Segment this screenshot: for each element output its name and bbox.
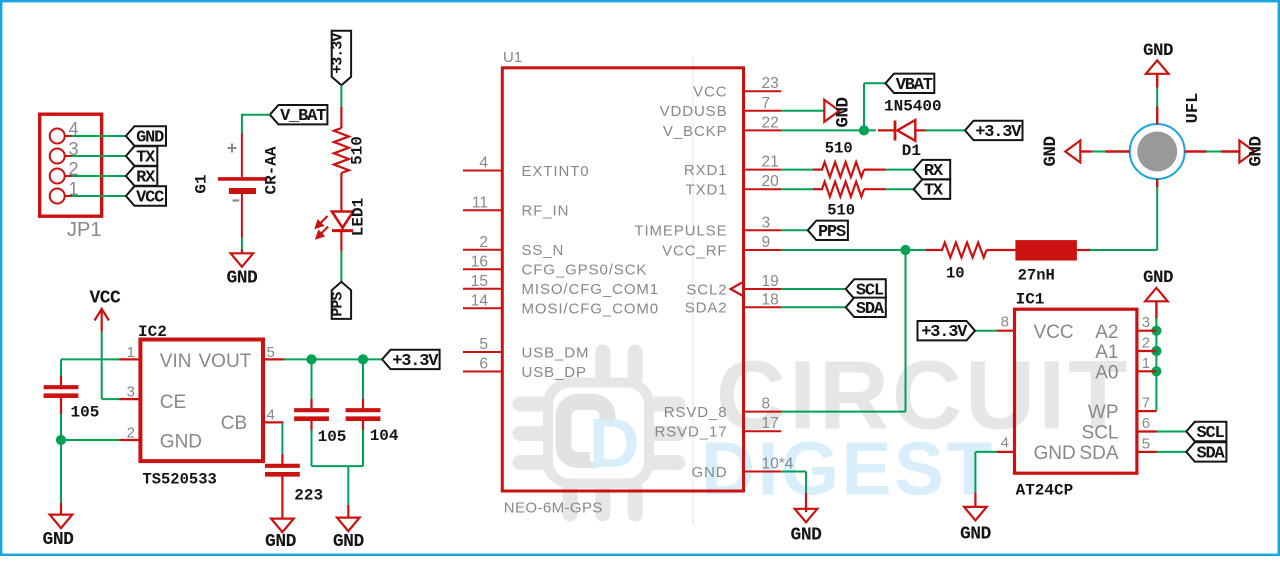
- svg-text:D1: D1: [902, 142, 921, 160]
- ground symbol (battery): [241, 250, 243, 254]
- ground symbol (cap 223): [271, 519, 294, 533]
- resistor 510 (LED): [334, 128, 349, 173]
- wire TIMEPULSE to PPS: [781, 229, 808, 231]
- net flag SDA (U1): [846, 298, 886, 317]
- svg-text:MOSI/CFG_COM0: MOSI/CFG_COM0: [522, 301, 660, 318]
- IC1 pin 8 stub: [997, 330, 1015, 332]
- junction dot (A2): [1151, 326, 1161, 336]
- svg-text:TXD1: TXD1: [686, 182, 728, 199]
- svg-text:SS_N: SS_N: [522, 242, 565, 259]
- svg-text:CFG_GPS0/SCK: CFG_GPS0/SCK: [522, 262, 648, 279]
- svg-text:+3.3V: +3.3V: [921, 323, 968, 342]
- svg-text:22: 22: [762, 114, 779, 131]
- svg-text:RSVD_17: RSVD_17: [654, 424, 727, 441]
- capacitor 223 to ground lead: [281, 475, 283, 518]
- net flag VCC (JP1): [126, 186, 166, 205]
- capacitor C-in 105 leads: [60, 359, 62, 377]
- svg-text:104: 104: [370, 427, 399, 445]
- power symbol VCC arrow: [95, 309, 109, 332]
- svg-text:GND: GND: [1143, 268, 1173, 288]
- U1 pin 16 (CFG_GPS0/SCK) stub: [463, 268, 502, 270]
- UFL top pin stub: [1156, 106, 1158, 124]
- UFL left pin stub: [1105, 150, 1130, 152]
- U1 pin 4 (EXTINT0) stub: [463, 170, 502, 172]
- U1 pin 9 (VCC_RF) stub: [744, 249, 782, 251]
- svg-text:SDA: SDA: [1079, 443, 1118, 464]
- wire VIN row: [61, 358, 120, 360]
- wire V_BCKP: [781, 129, 876, 131]
- UFL connector: [1130, 124, 1185, 179]
- svg-text:105: 105: [71, 404, 100, 422]
- ground symbol (IC1): [964, 507, 987, 521]
- svg-text:DIGEST: DIGEST: [701, 427, 995, 511]
- svg-text:6: 6: [1142, 415, 1150, 432]
- battery G1 negative lead: [241, 194, 243, 238]
- svg-text:VCC_RF: VCC_RF: [662, 242, 727, 259]
- U1 pin 14 (MOSI/CFG_COM0) stub: [463, 307, 502, 309]
- capacitor C-out 104: [346, 408, 381, 412]
- ground symbol (IC2 input): [50, 515, 73, 529]
- wire CB to cap 223: [281, 422, 283, 455]
- net flag +3.3V (IC1): [918, 321, 976, 340]
- ground symbol (IC1 top): [1145, 288, 1168, 302]
- svg-text:TX: TX: [136, 149, 156, 168]
- svg-text:4: 4: [479, 155, 488, 172]
- svg-text:GND: GND: [43, 530, 75, 550]
- net flag SCL (U1): [846, 279, 886, 298]
- ground symbol (UFL left): [1065, 141, 1080, 163]
- svg-text:510: 510: [349, 136, 367, 165]
- wire U1 GND net: [781, 471, 806, 473]
- svg-text:VCC: VCC: [1034, 322, 1074, 343]
- svg-text:EXTINT0: EXTINT0: [522, 163, 590, 180]
- svg-text:IC2: IC2: [138, 323, 167, 341]
- U1 pin 2 (SS_N) stub: [463, 249, 502, 251]
- ground symbol (U1): [795, 509, 818, 523]
- svg-text:CE: CE: [160, 392, 186, 413]
- capacitor C-out 105: [294, 408, 329, 412]
- junction dot (cap 105 out): [306, 354, 316, 364]
- JP1 pin 3 stub: [65, 155, 73, 157]
- svg-text:SDA2: SDA2: [685, 300, 728, 317]
- JP1 pin 4 stub: [65, 135, 73, 137]
- resistor 510 (LED) lead: [340, 107, 342, 128]
- U1 pin 3 (TIMEPULSE) stub: [744, 229, 782, 231]
- net flag GND (JP1): [126, 126, 166, 145]
- svg-text:8: 8: [762, 396, 771, 413]
- svg-text:6: 6: [479, 356, 488, 373]
- svg-text:AT24CP: AT24CP: [1016, 482, 1074, 500]
- wire resistor to TX flag: [885, 188, 914, 190]
- svg-text:5: 5: [1142, 435, 1150, 452]
- svg-text:15: 15: [471, 273, 488, 290]
- IC2 pin 2 stub: [119, 439, 140, 441]
- svg-text:VIN: VIN: [160, 351, 192, 372]
- resistor 510 (TXD1): [813, 188, 823, 190]
- svg-text:MISO/CFG_COM1: MISO/CFG_COM1: [522, 281, 660, 298]
- wire VCC_RF junction down to RSVD_8: [905, 250, 907, 412]
- ground lead (UFL left): [1081, 150, 1091, 152]
- ground lead (IC1 top): [1155, 301, 1157, 319]
- junction dot (cap 104 out): [358, 354, 368, 364]
- IC2 pin 1 stub: [119, 358, 140, 360]
- svg-text:V_BCKP: V_BCKP: [663, 123, 728, 140]
- diode D1: [878, 129, 896, 131]
- svg-text:A0: A0: [1095, 362, 1118, 383]
- IC1 body: [1015, 309, 1137, 473]
- svg-text:SCL: SCL: [1082, 423, 1119, 444]
- svg-text:VDDUSB: VDDUSB: [660, 103, 728, 120]
- svg-text:CB: CB: [221, 413, 247, 434]
- svg-text:PPS: PPS: [329, 292, 346, 317]
- resistor to LED lead: [340, 173, 342, 212]
- svg-text:GND: GND: [136, 129, 164, 148]
- svg-text:GND: GND: [265, 532, 297, 552]
- ground symbol (output caps): [337, 518, 360, 532]
- wire VDDUSB to GND: [781, 110, 825, 112]
- wire down to ground (left): [60, 440, 62, 504]
- svg-text:SCL: SCL: [1197, 424, 1225, 443]
- U1 pin 11 (RF_IN) stub: [463, 209, 502, 211]
- svg-text:UFL: UFL: [1184, 93, 1203, 124]
- net flag V_BAT: [270, 105, 328, 124]
- wire LED to PPS: [340, 251, 342, 282]
- junction dot (V_BCKP): [859, 125, 869, 135]
- U1 pin 19 (SCL2) stub: [744, 288, 782, 290]
- svg-text:GND: GND: [1034, 443, 1076, 464]
- svg-text:A1: A1: [1095, 342, 1118, 363]
- wire UFL right: [1206, 151, 1222, 153]
- UFL right pin stub: [1185, 150, 1208, 152]
- svg-text:11: 11: [472, 194, 488, 211]
- svg-text:TS520533: TS520533: [142, 471, 216, 489]
- wire GND row IC2: [61, 439, 120, 441]
- capacitor C-out 105 leads: [311, 359, 313, 400]
- JP1 pin 4 circle: [50, 129, 65, 144]
- svg-text:GND: GND: [691, 464, 727, 481]
- wire JP1 pin 1: [72, 195, 128, 197]
- IC1 right pin stubs: [1138, 330, 1157, 332]
- svg-text:RSVD_8: RSVD_8: [664, 404, 728, 421]
- net flag TX: [914, 180, 951, 199]
- svg-text:2: 2: [127, 425, 135, 442]
- svg-text:3: 3: [1142, 314, 1150, 331]
- svg-text:A2: A2: [1095, 322, 1118, 343]
- capacitor C-out 104 leads: [362, 359, 364, 400]
- inductor to UFL lead: [1077, 249, 1091, 251]
- svg-text:GND: GND: [226, 269, 258, 289]
- svg-text:7: 7: [762, 95, 771, 112]
- svg-text:SDA: SDA: [856, 300, 885, 319]
- svg-text:10*4: 10*4: [762, 456, 794, 473]
- svg-text:223: 223: [294, 487, 323, 505]
- svg-text:21: 21: [762, 154, 779, 171]
- junction dot (C-in/GND row): [56, 435, 66, 445]
- junction dot (A1): [1151, 346, 1161, 356]
- U1 pin 20 (TXD1) stub: [744, 188, 782, 190]
- U1 pin 21 (RXD1) stub: [744, 169, 782, 171]
- svg-text:27nH: 27nH: [1018, 267, 1055, 285]
- U1 body: [502, 68, 743, 491]
- svg-text:510: 510: [825, 140, 853, 158]
- IC2 pin 3 stub: [119, 398, 140, 400]
- U1 pin 8 (RSVD_8) stub: [744, 411, 782, 413]
- U1 pin 5 (USB_DM) stub: [463, 351, 502, 353]
- ground lead (UFL right): [1221, 150, 1239, 152]
- wire JP1 pin 2: [72, 175, 128, 177]
- ground lead (UFL top): [1156, 74, 1158, 88]
- svg-text:GND: GND: [834, 97, 854, 127]
- svg-text:USB_DM: USB_DM: [522, 344, 590, 361]
- svg-text:G1: G1: [193, 174, 211, 193]
- svg-text:4: 4: [1001, 435, 1009, 452]
- JP1 pin 2 circle: [50, 169, 65, 184]
- U1 pin 23 (VCC) stub: [744, 90, 782, 92]
- svg-text:GND: GND: [1143, 41, 1173, 61]
- U1 pin 22 (V_BCKP) stub: [744, 129, 782, 131]
- power flag +3.3V (top): [332, 31, 351, 86]
- svg-text:TX: TX: [924, 182, 944, 201]
- watermark chip logo: [520, 352, 678, 514]
- battery G1 plates: [218, 177, 267, 181]
- svg-text:GND: GND: [1041, 136, 1061, 166]
- svg-text:23: 23: [762, 75, 779, 92]
- net flag RX (JP1): [126, 166, 157, 185]
- resistor to inductor lead: [987, 249, 1017, 251]
- svg-text:105: 105: [318, 428, 347, 446]
- svg-text:+3.3V: +3.3V: [975, 123, 1022, 142]
- junction dot (VCC_RF): [900, 245, 910, 255]
- svg-text:TIMEPULSE: TIMEPULSE: [634, 223, 727, 240]
- svg-text:VCC: VCC: [693, 84, 727, 101]
- svg-text:RX: RX: [924, 162, 944, 181]
- svg-text:SDA: SDA: [1197, 444, 1226, 463]
- connector JP1 body: [40, 114, 102, 216]
- resistor 10: [926, 249, 943, 251]
- U1 SCL2 input arrow: [731, 282, 744, 297]
- svg-text:+3.3V: +3.3V: [392, 352, 439, 371]
- wire caps common bottom: [312, 465, 364, 467]
- wire SDA to flag (IC1): [1156, 451, 1186, 453]
- svg-text:1N5400: 1N5400: [884, 98, 942, 116]
- JP1 pin 1 stub: [65, 195, 73, 197]
- svg-text:VBAT: VBAT: [896, 76, 933, 95]
- svg-text:JP1: JP1: [67, 219, 101, 241]
- wire JP1 pin 4: [72, 135, 128, 137]
- svg-text:18: 18: [762, 291, 779, 308]
- svg-text:3: 3: [127, 384, 135, 401]
- net flag SCL (IC1): [1186, 422, 1226, 441]
- JP1 pin 2 stub: [65, 175, 73, 177]
- ground symbol (VDDUSB): [824, 100, 839, 122]
- U1 pin 18 (SDA2) stub: [744, 306, 782, 308]
- wire TXD1 to resistor: [781, 188, 814, 190]
- IC2 pin 4 stub: [263, 421, 284, 423]
- wire resistor to RX flag: [885, 169, 914, 171]
- wire UFL left: [1091, 151, 1107, 153]
- svg-text:2: 2: [1142, 335, 1150, 352]
- wire IC1 pull-down column: [1155, 318, 1157, 411]
- svg-text:D: D: [589, 404, 640, 482]
- svg-text:14: 14: [471, 292, 489, 309]
- svg-text:20: 20: [762, 173, 780, 190]
- wire +3.3V to pin 8: [975, 330, 997, 332]
- UFL bottom pin stub: [1156, 179, 1158, 187]
- U1 pin 6 (USB_DP) stub: [463, 371, 502, 373]
- svg-text:USB_DP: USB_DP: [522, 364, 587, 381]
- svg-text:1: 1: [1142, 355, 1150, 372]
- resistor 510 (RXD1): [813, 169, 823, 171]
- svg-text:GND: GND: [960, 525, 992, 545]
- U1 pin 7 (VDDUSB) stub: [744, 110, 782, 112]
- svg-text:NEO-6M-GPS: NEO-6M-GPS: [504, 500, 603, 517]
- svg-text:VCC: VCC: [89, 289, 121, 309]
- ground symbol (UFL top): [1146, 60, 1169, 74]
- svg-text:RX: RX: [136, 169, 156, 188]
- net flag PPS: [808, 221, 848, 240]
- svg-text:PPS: PPS: [818, 223, 846, 242]
- svg-text:16: 16: [471, 253, 488, 270]
- svg-text:8: 8: [1001, 314, 1009, 331]
- LED LED1: [332, 212, 353, 228]
- wire D1 to +3.3V: [926, 129, 966, 131]
- wire VCC down to CE row: [101, 332, 103, 400]
- wire SCL2 to flag: [781, 288, 845, 290]
- U1 pin 15 (MISO/CFG_COM1) stub: [463, 288, 502, 290]
- svg-text:RF_IN: RF_IN: [522, 203, 570, 220]
- net flag RX: [914, 160, 951, 179]
- wire JP1 pin 3: [72, 155, 128, 157]
- svg-text:510: 510: [827, 202, 855, 220]
- wire RXD1 to resistor: [781, 169, 814, 171]
- junction dot (A0): [1151, 366, 1161, 376]
- svg-text:GND: GND: [1247, 136, 1267, 166]
- U1 pin 17 (RSVD_17) stub: [744, 430, 782, 432]
- svg-text:WP: WP: [1088, 402, 1119, 423]
- inductor 27nH: [1015, 240, 1077, 260]
- wire battery to GND: [241, 238, 243, 250]
- battery G1 plus sign: [228, 147, 237, 149]
- IC1 pin 4 stub: [997, 451, 1015, 453]
- LED cathode lead: [340, 231, 342, 251]
- capacitor 223: [265, 464, 300, 468]
- IC2 body: [140, 340, 263, 462]
- net flag +3.3V (VBAT diode): [965, 121, 1023, 140]
- net flag TX (JP1): [126, 146, 157, 165]
- svg-text:+3.3V: +3.3V: [329, 33, 346, 74]
- svg-text:LED1: LED1: [350, 198, 368, 236]
- wire inductor to UFL: [1090, 249, 1157, 251]
- svg-text:3: 3: [762, 214, 771, 231]
- wire junction up to VBAT: [863, 83, 865, 130]
- U1 pin 10*4 (GND) stub: [744, 471, 782, 473]
- svg-text:19: 19: [762, 273, 779, 290]
- wire UFL top: [1156, 87, 1158, 108]
- svg-text:GND: GND: [160, 432, 202, 453]
- svg-text:1: 1: [127, 344, 135, 361]
- wire SDA2 to flag: [781, 306, 845, 308]
- svg-text:4: 4: [267, 407, 275, 424]
- wire VCC_RF: [781, 249, 927, 251]
- net flag +3.3V (IC2 out): [382, 350, 440, 369]
- svg-text:VCC: VCC: [136, 189, 164, 208]
- svg-text:10: 10: [946, 265, 965, 283]
- net flag VBAT: [886, 74, 935, 93]
- svg-text:GND: GND: [333, 532, 365, 552]
- wire V_BAT to battery: [242, 114, 270, 116]
- wire +3.3V to R510: [340, 85, 342, 108]
- svg-text:VOUT: VOUT: [199, 351, 252, 372]
- svg-text:CR-AA: CR-AA: [263, 146, 281, 194]
- svg-text:RXD1: RXD1: [684, 162, 728, 179]
- battery G1 minus sign: [233, 199, 240, 201]
- wire VOUT to +3.3V: [284, 358, 383, 360]
- IC2 pin 5 stub: [263, 358, 284, 360]
- JP1 pin 3 circle: [50, 149, 65, 164]
- svg-text:IC1: IC1: [1016, 291, 1045, 309]
- watermark divider: [692, 57, 694, 524]
- wire SCL to flag (IC1): [1156, 431, 1186, 433]
- capacitor C-in 105: [44, 385, 79, 389]
- svg-text:SCL2: SCL2: [686, 281, 727, 298]
- net flag SDA (IC1): [1186, 442, 1226, 461]
- svg-text:U1: U1: [503, 49, 522, 66]
- ground symbol (UFL right): [1239, 141, 1254, 163]
- JP1 pin 1 circle: [50, 189, 65, 204]
- svg-text:17: 17: [762, 415, 779, 432]
- battery G1 positive lead: [241, 133, 243, 177]
- LED1 emission arrows: [316, 216, 328, 238]
- svg-text:7: 7: [1142, 395, 1150, 412]
- svg-text:2: 2: [479, 234, 488, 251]
- svg-text:5: 5: [479, 336, 488, 353]
- svg-text:GND: GND: [791, 526, 823, 546]
- net flag PPS (LED): [332, 282, 351, 319]
- wire IC1 GND: [975, 451, 996, 453]
- svg-text:V_BAT: V_BAT: [280, 107, 326, 126]
- svg-text:9: 9: [762, 234, 771, 251]
